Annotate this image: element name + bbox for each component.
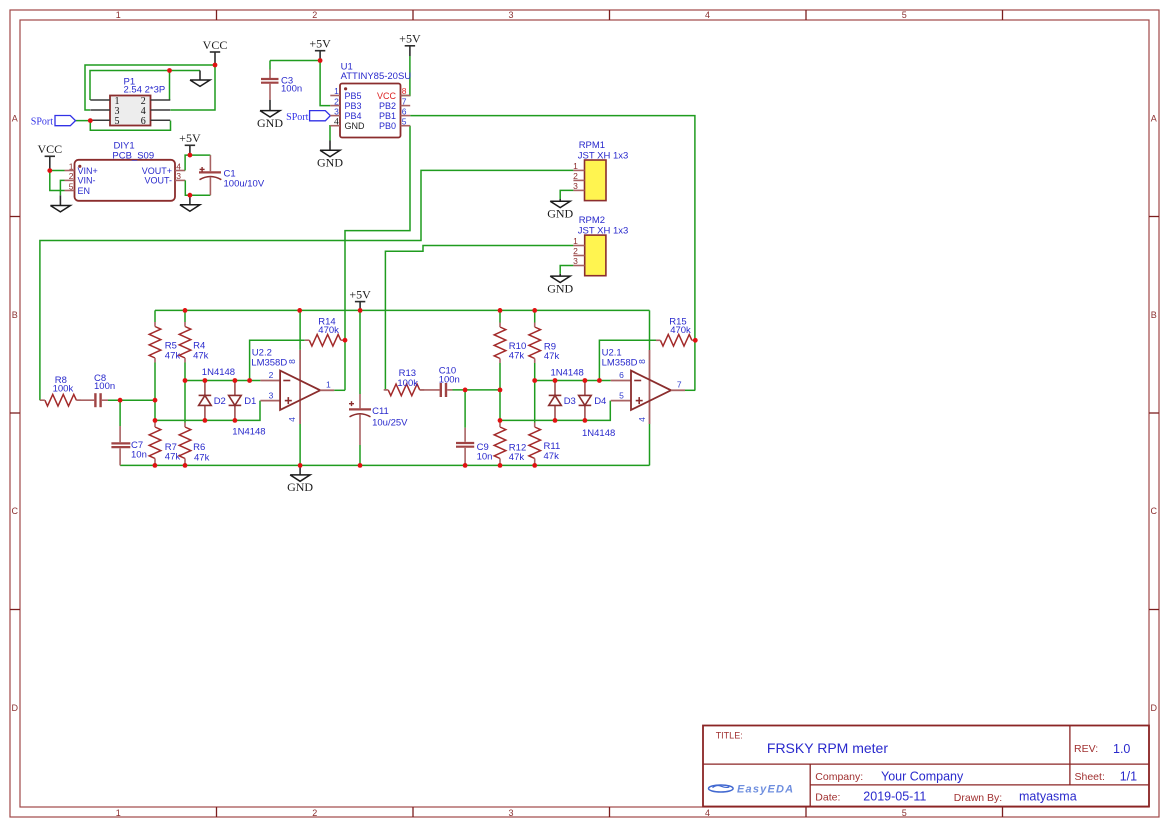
resistor R9 47k [534,310,536,322]
svg-text:2.54 2*3P: 2.54 2*3P [124,85,166,96]
junction input row R10 [498,388,503,393]
junction ref row R9 [532,378,537,383]
power flag VCC (DIY1) [49,156,51,170]
wire +5V to U1 pin8 [401,56,410,96]
resistor R12 47k [499,420,501,422]
svg-text:1N4148: 1N4148 [232,427,265,438]
svg-text:Date:: Date: [815,792,840,804]
ground symbol (RPM2) [559,274,561,276]
svg-text:5: 5 [902,10,907,20]
svg-text:1: 1 [116,808,121,818]
ground symbol (P1) [199,71,201,81]
junction rail R4 [183,308,188,313]
svg-text:matyasma: matyasma [1019,790,1077,804]
svg-text:+5V: +5V [349,287,371,301]
svg-text:D1: D1 [244,396,256,407]
svg-text:C: C [12,506,19,516]
resistor R4 47k [184,310,186,322]
wire +5V node down to PB3 [320,61,330,106]
junction rail R10 [498,308,503,313]
wire PB1 to U2.1 output [410,116,695,391]
wire ref row 2 (op-amp2 pin6 net) [535,380,611,382]
svg-text:1: 1 [69,161,74,171]
wire C8 to input node [108,399,155,401]
wire net SPort P1 pins 5-6 [76,121,171,131]
svg-text:VCC: VCC [203,38,228,52]
capacitor C11 10u/25V polarized [359,310,361,394]
svg-text:3: 3 [508,808,513,818]
svg-text:6: 6 [619,370,624,380]
ground symbol (C1) [189,195,191,205]
svg-text:47k: 47k [194,452,210,463]
svg-text:B: B [1151,310,1157,320]
resistor R8 100k [40,399,41,401]
svg-text:7: 7 [402,96,407,106]
svg-text:+5V: +5V [309,37,331,51]
resistor R10 47k [499,310,501,322]
regulator DIY1 box [75,160,176,201]
svg-text:PB2: PB2 [379,101,396,111]
wire RPM1 pin1 to R8 [40,170,574,400]
svg-text:1N4148: 1N4148 [202,367,235,378]
power flag +5V (U1 VCC) [409,46,411,56]
ground symbol (rail) [299,465,301,475]
capacitor C8 100n [94,393,96,407]
diode D1 1N4148 [234,381,236,396]
svg-text:4: 4 [287,417,297,422]
junction rail U2.2 pin8 [297,308,302,313]
svg-text:1: 1 [116,10,121,20]
junction ref feedback 2 [597,378,602,383]
connector RPM2 box [585,235,606,276]
svg-text:2: 2 [573,246,578,256]
svg-text:100k: 100k [53,383,74,394]
wire RPM1 pin3 to ground [560,190,573,199]
wire RPM2 pin1 to R13 [385,246,573,390]
svg-text:5: 5 [619,391,624,401]
ground symbol (DIY1 VIN-) [59,195,61,205]
junction gnd R11 [532,463,537,468]
svg-text:GND: GND [547,206,573,220]
svg-text:Company:: Company: [815,771,863,783]
diode D2 1N4148 [204,381,206,396]
wire R5-R7 link [154,400,156,420]
svg-text:D: D [1151,703,1158,713]
wire C1 bottom [190,194,211,196]
wire PB0 down to output [344,340,346,390]
capacitor C3 100n [269,61,271,70]
net flag SPort (U1) [310,111,331,121]
svg-text:1: 1 [326,380,331,390]
svg-text:47k: 47k [509,351,525,362]
IC U1 box [340,84,401,138]
junction +5V DIY1 [188,153,193,158]
svg-text:TITLE:: TITLE: [716,731,743,741]
svg-text:VIN+: VIN+ [78,166,98,176]
wire +5V rail [155,309,650,311]
junction ref D2 [203,378,208,383]
diode D4 1N4148 [584,381,586,396]
title block [703,726,1149,807]
P1 pin leads [90,100,170,120]
svg-text:+5V: +5V [179,131,201,145]
svg-text:D: D [12,703,19,713]
svg-text:47k: 47k [509,452,525,463]
svg-text:LM358D: LM358D [602,357,638,368]
wire net P1 pins 1-2 to GND [90,71,200,101]
junction gnd C9 [463,463,468,468]
U1 pin leads [330,96,410,126]
wire +5V to C1 top [190,154,211,156]
svg-text:47k: 47k [165,350,181,361]
svg-text:3: 3 [508,10,513,20]
wire input row2 to pin3 [155,401,260,421]
svg-text:ATTINY85-20SU: ATTINY85-20SU [341,71,412,82]
op-amp U2.2 power pins [299,310,301,350]
svg-text:3: 3 [573,256,578,266]
junction C10 node [463,388,468,393]
junction C1 bottom [188,193,193,198]
svg-text:EasyEDA: EasyEDA [737,784,794,796]
resistor R7 47k [154,420,156,422]
junction gnd R7 [153,463,158,468]
capacitor C1 100u/10V polarized [209,155,211,171]
svg-text:10n: 10n [131,449,147,460]
svg-text:5: 5 [402,116,407,126]
wire +5V to VOUT+ [185,155,190,170]
svg-text:D3: D3 [564,396,576,407]
EasyEDA logo [709,785,734,792]
svg-text:GND: GND [287,480,313,494]
svg-text:2: 2 [334,96,339,106]
svg-text:2: 2 [312,808,317,818]
svg-text:1: 1 [573,236,578,246]
svg-text:2019-05-11: 2019-05-11 [863,790,926,804]
junction row2 D3 [553,418,558,423]
svg-text:Sheet:: Sheet: [1075,771,1105,783]
wire ref row (op-amp1 pin2 net) [185,380,260,382]
op-amp U2.2 LM358D [260,380,280,382]
junction rail +5V C11 [358,308,363,313]
resistor R15 470k feedback [599,340,656,380]
svg-text:GND: GND [317,156,343,170]
svg-text:1: 1 [573,161,578,171]
power flag VCC (P1) [214,52,216,65]
connector RPM1 box [585,160,607,201]
svg-text:100k: 100k [397,378,418,389]
svg-text:GND: GND [345,121,366,131]
connector P1 box [110,96,151,126]
junction gnd U2.2 pin4 [298,463,303,468]
junction SPort pin5 [88,118,93,123]
svg-text:3: 3 [334,106,339,116]
svg-text:100u/10V: 100u/10V [224,179,265,190]
capacitor C10 100n [440,383,442,397]
resistor R13 100k [385,389,386,391]
U1 pin1 dot [344,87,347,90]
junction row2 R10R12 [498,418,503,423]
svg-text:47k: 47k [544,451,560,462]
svg-text:Your Company: Your Company [881,770,964,784]
svg-text:VCC: VCC [37,142,62,156]
svg-text:PB4: PB4 [345,111,362,121]
wire PB0 to R14 right [345,126,410,341]
svg-text:VOUT+: VOUT+ [142,166,172,176]
svg-text:47k: 47k [165,452,181,463]
junction ref D4 [583,378,588,383]
svg-text:3: 3 [573,181,578,191]
svg-text:Drawn By:: Drawn By: [954,792,1002,804]
svg-text:8: 8 [402,86,407,96]
wire VCC to VIN+ and EN [50,171,65,191]
op-amp U2.1 power pins [649,310,651,350]
svg-text:PB3: PB3 [345,101,362,111]
svg-text:SPort: SPort [286,112,308,123]
junction P1 VCC [213,63,218,68]
junction ref D3 [553,378,558,383]
svg-text:REV:: REV: [1074,743,1098,755]
resistor R5 47k [154,310,156,322]
svg-text:4: 4 [334,117,339,127]
RPM2 pin leads [573,246,584,266]
svg-text:3: 3 [269,391,274,401]
wire GND rail [120,464,649,466]
svg-text:470k: 470k [318,325,339,336]
svg-text:A: A [1151,113,1157,123]
junction ref feedback [247,378,252,383]
svg-text:R6: R6 [193,442,205,453]
svg-text:VOUT-: VOUT- [144,176,172,186]
capacitor C7 10n [119,400,121,426]
svg-text:+5V: +5V [399,32,421,46]
svg-text:C11: C11 [372,406,389,417]
svg-text:8: 8 [287,359,297,364]
wire U1 GND pin4 [329,126,331,141]
ground symbol (RPM1) [559,199,561,201]
wire RPM2 pin3 to ground [560,266,573,274]
svg-text:4: 4 [637,417,647,422]
svg-text:3: 3 [176,171,181,181]
junction row2 D1 [233,418,238,423]
wire VIN- to GND [60,180,64,195]
svg-text:7: 7 [677,380,682,390]
junction P1 pin2 net [167,68,172,73]
svg-text:47k: 47k [193,350,209,361]
junction VCC DIY1 pin1 [47,168,52,173]
junction row2 D2 [203,418,208,423]
svg-text:FRSKY RPM meter: FRSKY RPM meter [767,740,888,756]
net flag SPort (left) [55,116,76,126]
diode D3 1N4148 [554,381,556,396]
junction row2 R5R7 [153,418,158,423]
DIY1 pin1 dot [78,165,81,168]
op-amp U2.1 LM358D [611,380,631,382]
junction row2 D4 [583,418,588,423]
svg-text:4: 4 [176,161,181,171]
power flag +5V (C3) [319,51,321,61]
svg-text:SPort: SPort [31,117,53,128]
svg-text:1/1: 1/1 [1120,770,1137,784]
svg-text:C: C [1151,506,1158,516]
RPM1 pin leads [573,170,584,190]
wire +5V node to C3 [270,60,320,62]
junction ref row R4 [183,378,188,383]
resistor R14 470k feedback [250,340,305,380]
svg-text:VCC: VCC [377,91,397,101]
svg-text:5: 5 [115,116,120,127]
svg-text:100n: 100n [439,374,460,385]
svg-text:8: 8 [637,359,647,364]
capacitor C9 10n [464,390,466,428]
svg-text:1N4148: 1N4148 [551,368,584,379]
svg-text:5: 5 [69,181,74,191]
wire C10 to input node 2 [453,389,501,391]
junction R14 right PB0 [343,338,348,343]
junction gnd C11 [358,463,363,468]
resistor R11 47k [534,381,536,423]
svg-text:2: 2 [573,171,578,181]
junction C8 node [118,398,123,403]
svg-text:100n: 100n [281,84,302,95]
svg-text:1: 1 [334,86,339,96]
svg-text:100n: 100n [94,381,115,392]
svg-text:GND: GND [257,116,283,130]
junction gnd R6 [183,463,188,468]
svg-text:LM358D: LM358D [251,357,287,368]
svg-text:4: 4 [705,808,710,818]
svg-text:10n: 10n [477,452,493,463]
svg-text:2: 2 [269,370,274,380]
ground symbol (C3) [269,100,271,111]
svg-text:D4: D4 [594,396,606,407]
svg-text:PB5: PB5 [345,91,362,101]
svg-text:PB1: PB1 [379,111,396,121]
DIY1 pin leads [65,171,186,191]
svg-text:6: 6 [141,116,146,127]
ground symbol (U1) [329,141,331,151]
wire input row2 to pin5 [500,401,610,421]
wire net VCC P1 pins 3-4 [85,65,215,110]
wire R10-R12 link [499,390,501,421]
svg-text:D2: D2 [214,396,226,407]
svg-text:5: 5 [902,808,907,818]
svg-text:2: 2 [312,10,317,20]
svg-text:PB0: PB0 [379,121,396,131]
svg-text:1N4148: 1N4148 [582,428,615,439]
svg-text:470k: 470k [670,325,691,336]
power flag +5V (rail) [359,302,361,311]
junction gnd R12 [498,463,503,468]
svg-text:2: 2 [69,171,74,181]
svg-text:VIN-: VIN- [78,176,96,186]
junction ref D1 [233,378,238,383]
svg-text:A: A [12,113,18,123]
svg-text:PCB_S09: PCB_S09 [112,150,154,161]
power flag +5V (DIY1 out) [189,145,191,155]
svg-text:B: B [12,310,18,320]
wire VOUT- to C1 bottom [185,180,190,195]
svg-text:1.0: 1.0 [1113,742,1130,756]
svg-text:10u/25V: 10u/25V [372,417,408,428]
junction rail R9 [532,308,537,313]
svg-text:GND: GND [547,281,573,295]
svg-text:4: 4 [705,10,710,20]
svg-text:EN: EN [78,186,91,196]
junction +5V C3 node [318,58,323,63]
wire P1 pin2 drop [169,71,171,101]
resistor R6 47k [184,381,186,423]
junction input row R5 [153,398,158,403]
svg-text:6: 6 [402,106,407,116]
svg-text:47k: 47k [544,351,560,362]
junction R15 right PB1 [693,338,698,343]
